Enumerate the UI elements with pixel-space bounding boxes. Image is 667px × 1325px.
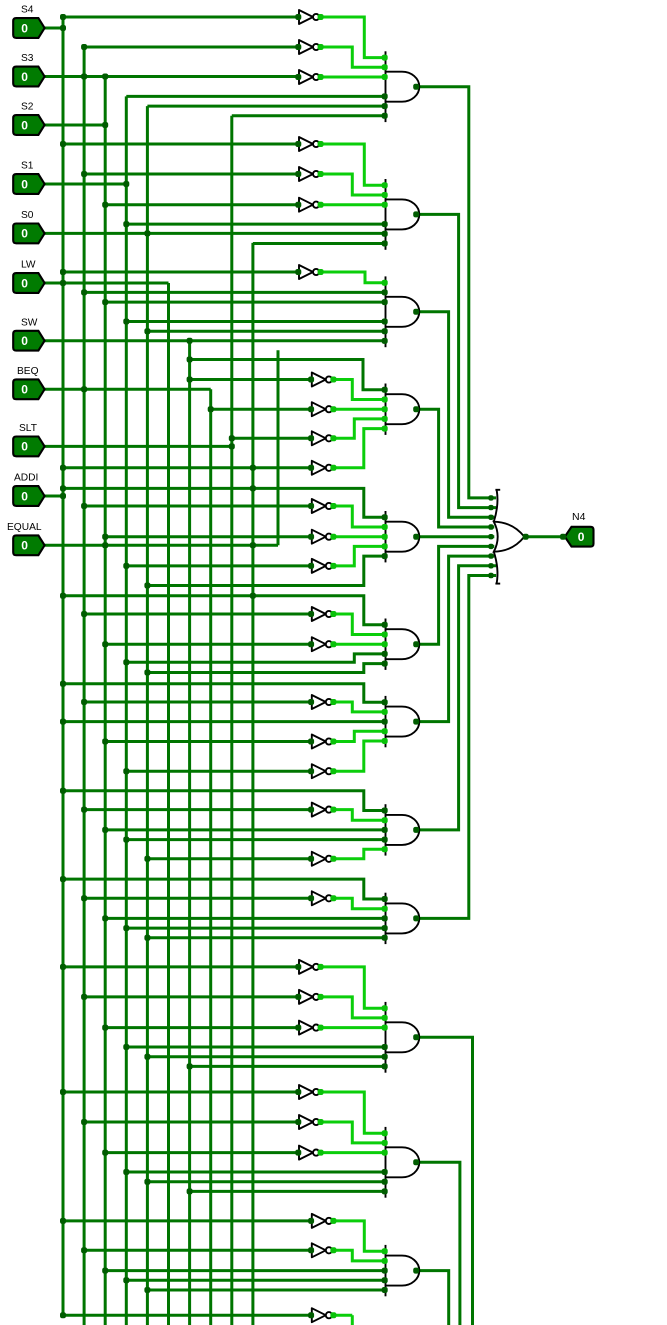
svg-text:S0: S0 [21, 210, 34, 221]
svg-text:0: 0 [21, 489, 28, 503]
svg-text:SLT: SLT [19, 423, 37, 434]
svg-text:EQUAL: EQUAL [7, 522, 42, 533]
svg-text:0: 0 [21, 334, 28, 348]
svg-text:S1: S1 [21, 161, 34, 172]
svg-text:0: 0 [21, 21, 28, 35]
svg-text:0: 0 [21, 177, 28, 191]
svg-text:S3: S3 [21, 53, 34, 64]
svg-text:S2: S2 [21, 102, 34, 113]
svg-text:0: 0 [578, 530, 585, 544]
svg-text:0: 0 [21, 70, 28, 84]
svg-text:0: 0 [21, 539, 28, 553]
svg-text:S4: S4 [21, 5, 34, 16]
svg-text:N4: N4 [572, 511, 586, 523]
svg-text:LW: LW [21, 260, 36, 271]
svg-text:SW: SW [21, 317, 38, 328]
svg-text:0: 0 [21, 276, 28, 290]
svg-text:0: 0 [21, 383, 28, 397]
svg-text:0: 0 [21, 118, 28, 132]
svg-text:BEQ: BEQ [17, 366, 39, 377]
svg-text:ADDI: ADDI [14, 473, 38, 484]
svg-text:0: 0 [21, 227, 28, 241]
svg-text:0: 0 [21, 440, 28, 454]
